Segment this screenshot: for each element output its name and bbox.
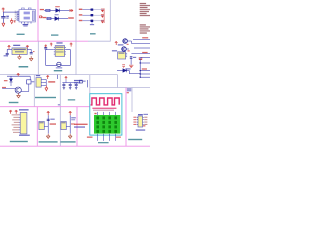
wire C2 down	[6, 55, 8, 57]
ground bars at x70.2	[69, 88, 72, 90]
block border: vertical magenta x=38 (power input / opto blocks)	[37, 0, 39, 41]
C3 plus mark	[33, 51, 35, 52]
ground under 7805	[18, 55, 22, 60]
wire LED row3 right	[93, 20, 104, 22]
diode label row2	[55, 14, 59, 15]
wire cap drop x70.2	[69, 83, 71, 85]
LED D5 row3	[91, 20, 94, 22]
vertical rail x140	[139, 57, 141, 77]
U? ref text (block G)	[36, 75, 40, 76]
wire to edge y63	[140, 62, 150, 64]
wire stub	[46, 49, 54, 51]
ground (block G)	[45, 85, 48, 90]
red output arrow row1	[70, 9, 73, 12]
ground power arrow (block A mid)	[10, 18, 13, 23]
value label C1	[6, 16, 9, 17]
pin tick left (block L)	[137, 121, 138, 123]
LED label red	[4, 80, 8, 81]
wire C1 to ground	[2, 18, 4, 23]
block border: vertical periwinkle x=76	[75, 0, 77, 75]
text below header (block I)	[19, 135, 30, 136]
capacitor (block J1)	[47, 119, 50, 120]
crimson text row2	[93, 110, 114, 111]
annotation text paragraph 2	[140, 24, 146, 25]
transistor Q1	[123, 39, 128, 44]
resistor red symbol row1	[101, 9, 104, 12]
transistor Q2	[122, 47, 127, 52]
LED D4 row2	[91, 14, 94, 16]
net label P1.x top	[142, 37, 148, 38]
node label text row2	[42, 17, 46, 18]
crystal Y1	[57, 62, 61, 66]
wire cap drop x63.9	[63, 83, 65, 85]
input symbol row2 (block B)	[40, 16, 43, 18]
text near Q2	[112, 50, 117, 51]
power arrow (mid-right)	[115, 42, 118, 45]
ground bars at x76.2	[75, 88, 78, 90]
wire to edge y74	[140, 73, 150, 75]
crystal value text	[56, 67, 62, 68]
wire LED3 cathode stub	[91, 22, 93, 23]
power arrow (block J1)	[47, 112, 50, 116]
pin tick right	[65, 53, 66, 55]
capacitor C1	[1, 17, 5, 18]
pin label red right (block L)	[144, 124, 147, 125]
pin tick right (block L)	[143, 121, 144, 123]
block border: vertical periwinkle x=132	[131, 88, 133, 113]
block border: vertical periwinkle x=110 (LED block right)	[109, 0, 111, 42]
relay pin name texts	[16, 12, 18, 20]
regulator U? 7805 body	[12, 48, 27, 55]
wire to edge y48	[134, 47, 150, 49]
ground (block J1)	[46, 134, 50, 139]
pin tick left	[54, 47, 55, 49]
wire cap rail	[62, 82, 78, 84]
block border: horizontal periwinkle y=74.5	[0, 74, 90, 76]
relay ref text K1	[23, 24, 29, 25]
block J2 title text	[60, 141, 75, 142]
LED common rail (red)	[103, 8, 105, 23]
ref text above IC (block L)	[138, 114, 143, 115]
pin tick (block G)	[41, 78, 43, 80]
wire to R (block F)	[29, 76, 31, 79]
resistor R? row1	[46, 9, 50, 11]
red label right of pins	[116, 137, 121, 138]
header pin labels (red)	[12, 114, 19, 115]
IC U? (clock chip) body	[55, 46, 64, 57]
pin label red left (block L)	[133, 119, 136, 120]
wire to edge y70.6	[140, 70, 150, 72]
wire VOUT	[27, 48, 31, 50]
wire VIN	[7, 48, 12, 50]
ref text above header (block I)	[19, 109, 29, 110]
red mark right of Q2	[128, 50, 130, 51]
pin tick left	[54, 53, 55, 55]
net label RESET red	[50, 123, 56, 124]
red mark bottom right of IC	[143, 125, 145, 126]
diode D? (mid-right)	[123, 69, 127, 73]
diode label row1	[55, 6, 60, 7]
diode D2 row2	[55, 17, 59, 21]
node label text row1 (block B)	[40, 9, 44, 10]
block D title: DC5V power	[19, 66, 29, 68]
text r2 (block J2)	[71, 119, 75, 120]
ground under C3	[29, 56, 33, 61]
caps block title text	[68, 99, 75, 100]
block E title text	[54, 70, 62, 71]
red tick near Q1	[127, 44, 129, 45]
block border: horizontal periwinkle y=41 under LED block	[88, 40, 110, 42]
IC text row3	[56, 51, 64, 52]
wire LED row1 left	[82, 9, 90, 11]
IC X1 (yellow, mid-right)	[118, 52, 126, 59]
power arrow 2 (block I)	[15, 110, 18, 114]
pin tick (block G)	[41, 84, 43, 86]
wire LCD vertical	[86, 80, 88, 87]
pin label red left (block L)	[133, 124, 136, 125]
relay bottom pins	[22, 22, 32, 24]
relay K1 top loops	[22, 8, 31, 10]
block border: vertical periwinkle x=60	[59, 75, 61, 147]
keypad matrix (green)	[94, 115, 120, 134]
IR LED D? (filled triangle down)	[9, 79, 12, 82]
red mark (block L)	[127, 92, 129, 93]
power arrow (caps block)	[65, 77, 68, 80]
wire base	[2, 87, 15, 89]
ground (block J2)	[68, 134, 72, 139]
power arrow on rail	[17, 74, 20, 77]
net label y68	[142, 68, 147, 69]
net label right row2	[68, 17, 74, 18]
pin label red right (block L)	[144, 119, 147, 120]
wire Q2 right	[126, 48, 129, 50]
crystal symbol small (caps block)	[80, 80, 83, 83]
switch S? (block J1) body	[39, 122, 44, 130]
annotation text paragraph 1	[140, 3, 146, 4]
input net label (block F)	[2, 87, 6, 88]
wire to edge y77	[140, 76, 150, 78]
text near Q1	[118, 44, 124, 45]
block border: vertical periwinkle x=34 row3	[33, 75, 35, 107]
relay left pins	[17, 11, 19, 20]
cap text (block J1)	[50, 119, 54, 120]
C2 value text	[4, 55, 8, 56]
diode D1 row1	[56, 9, 60, 13]
switch S? (block J2) body	[61, 122, 66, 130]
wire corner to rail	[129, 71, 140, 74]
pin tick X1 right	[126, 54, 128, 56]
pin tick right (block L)	[143, 116, 144, 118]
crystal text	[83, 81, 86, 82]
red socket symbol	[139, 57, 142, 60]
block border: horizontal magenta y=41 left	[0, 40, 88, 42]
wire vcc to cap rail	[65, 79, 67, 82]
wire vertical (block J1)	[47, 115, 49, 133]
net label y52	[142, 52, 147, 53]
relay pin numbers	[15, 11, 16, 21]
wire with diode	[117, 70, 129, 72]
wire to IR LED	[10, 76, 12, 78]
wire VCC to relay pins	[3, 11, 17, 13]
wire to edge y43	[131, 42, 150, 44]
wire LED row1 right	[93, 9, 104, 11]
LCD module box (cyan)	[90, 94, 122, 135]
text under LED column	[90, 24, 94, 25]
block border: horizontal periwinkle y=74.5 right segment	[90, 74, 118, 76]
pin label red right (block L)	[144, 117, 147, 118]
capacitor on left leg (block E)	[44, 48, 47, 49]
pin tick (block G)	[41, 81, 43, 83]
wire vertical join	[45, 79, 47, 85]
wire switch to rail (J2)	[66, 125, 70, 127]
wire row2 right	[59, 18, 68, 20]
switch text (J2)	[61, 122, 65, 123]
net label red (block J2)	[71, 123, 75, 124]
pin tick left	[54, 49, 55, 51]
relay coil bar lower	[24, 17, 30, 20]
capacitor at x63.9	[62, 84, 65, 85]
wire cap down	[130, 58, 132, 64]
power arrow (block G)	[46, 76, 49, 80]
capacitor C3 (polar)	[30, 53, 33, 54]
pin tick X1 right	[126, 52, 128, 54]
pin label red left (block L)	[133, 122, 136, 123]
block border: vertical periwinkle x=90 upper	[89, 75, 91, 94]
U? ref text (block E)	[56, 42, 62, 43]
block border: horizontal magenta y=146 bottom	[0, 145, 150, 147]
text right of IC	[143, 114, 148, 115]
text r1 (block J2)	[71, 117, 76, 118]
block F title text	[9, 102, 19, 103]
resistor R? (block F)	[27, 80, 31, 84]
wire to edge y57	[140, 56, 150, 58]
ground under transistor (block F)	[17, 93, 21, 98]
net text row2	[127, 90, 131, 91]
capacitor C2	[6, 53, 9, 54]
net label LED row2	[79, 14, 83, 15]
wire LED row2 left	[82, 14, 90, 16]
power arrow (block J2)	[69, 112, 72, 116]
net label DQ red	[48, 81, 55, 82]
wire pin1	[43, 78, 46, 80]
net labels navy (left of keypad)	[74, 126, 85, 127]
pin tick right	[65, 49, 66, 51]
7805 name text row	[15, 51, 24, 52]
wire to C3	[30, 49, 32, 52]
IC text row2	[56, 49, 64, 50]
wire vertical (block J2)	[69, 115, 71, 133]
relay contact bar	[32, 11, 34, 21]
LCD net label row1	[74, 80, 82, 81]
header pin ticks	[19, 115, 20, 132]
pin-1 red mark	[14, 20, 16, 22]
keypad bottom pins	[98, 134, 116, 141]
wire to edge y39	[133, 38, 150, 40]
power arrow (block E mid)	[50, 43, 53, 46]
LED D3 row1	[91, 8, 94, 10]
power arrow VIN (block D)	[8, 46, 11, 50]
block I title text	[10, 141, 28, 142]
net stub text	[58, 104, 60, 105]
wire LED row2 right	[93, 14, 104, 16]
power VCC arrow (block A)	[2, 8, 5, 12]
pin tick left (block L)	[137, 116, 138, 118]
wire Q1 corner	[130, 41, 132, 43]
resistor R? row2	[47, 18, 51, 20]
wire pin3	[43, 84, 46, 86]
block K title text	[98, 142, 109, 143]
block border: vertical magenta x=37 row4	[36, 107, 38, 147]
net label LED row1	[79, 9, 83, 10]
pin label red left (block L)	[133, 117, 136, 118]
ground power arrow (block A left)	[2, 23, 5, 26]
resistor red symbol row3	[101, 20, 104, 23]
wire to C2	[6, 49, 8, 53]
pin tick left (block L)	[137, 124, 138, 126]
power arrow (block E left)	[44, 45, 47, 48]
LCD net label row2	[74, 82, 80, 83]
power arrow 1 (block I)	[9, 110, 12, 114]
pin tick right (block L)	[143, 124, 144, 126]
wire row2 left	[47, 18, 55, 20]
cap value text	[133, 57, 136, 58]
wire Q1 to rail	[127, 40, 131, 42]
net text (block L top) row1	[127, 88, 131, 89]
block border: vertical periwinkle x=38 row2	[37, 41, 39, 74]
relay coil bar upper	[24, 12, 30, 15]
P3 net labels red (left of keypad)	[74, 124, 88, 125]
ground bars at x63.9	[63, 88, 66, 90]
transistor Q? (block F)	[15, 87, 21, 93]
resistor red symbol row2	[101, 15, 104, 18]
wire to edge y53.6	[131, 53, 150, 55]
pin tick left (block L)	[137, 119, 138, 121]
ground flat red (mid-right)	[129, 65, 133, 67]
7805 pin text row	[13, 49, 25, 50]
navy text near corner	[125, 68, 130, 69]
wire R down	[28, 84, 30, 91]
relay value text	[23, 26, 27, 27]
pin tick X1 right	[126, 56, 128, 58]
X1 text	[118, 53, 124, 54]
pin tick right	[65, 51, 66, 53]
capacitor at x70.2	[69, 84, 72, 85]
block A title text	[17, 34, 25, 35]
power arrow VOUT (block D)	[26, 46, 29, 50]
pin label red right (block L)	[144, 122, 147, 123]
IC U? (block L) body	[138, 116, 143, 127]
wire top rail (block F)	[7, 75, 30, 77]
text below IC (block L)	[136, 129, 145, 130]
LCD waveform (crimson)	[91, 98, 120, 105]
net label LED row3	[79, 20, 83, 21]
block border: vertical magenta x=126	[125, 88, 127, 147]
block J1 title text	[39, 141, 58, 142]
wire loop to crystal	[46, 49, 71, 65]
block border: horizontal magenta y=107	[0, 106, 90, 108]
block C title text LED	[90, 33, 96, 34]
capacitor (mid-right top)	[130, 57, 133, 58]
block border: vertical periwinkle x=117.5	[117, 75, 119, 88]
block B title text	[51, 34, 58, 35]
keypad key grid	[96, 116, 117, 132]
wire stub down from block E	[56, 75, 58, 79]
switch text	[39, 122, 43, 123]
red label left of pins	[87, 137, 93, 138]
sensor U? DS18B20 body	[36, 78, 41, 88]
value label 104	[6, 18, 8, 19]
wire row1 left	[44, 9, 55, 11]
wire pin2	[43, 81, 46, 83]
block G title text DS18B20	[35, 97, 56, 98]
block border: vertical magenta x=77	[76, 107, 78, 147]
power arrow (block E right)	[70, 43, 73, 47]
wire row1 right	[60, 9, 70, 11]
wire to capacitor C1	[2, 12, 4, 16]
red plus mark keypad	[94, 113, 96, 114]
wire LED down	[10, 82, 12, 86]
block L title text	[128, 139, 142, 140]
IC text row1	[56, 47, 64, 48]
junction dots on rail	[140, 62, 141, 78]
pin tick left	[54, 51, 55, 53]
header J? (block I) body	[20, 112, 27, 133]
wire switch to rail	[44, 125, 48, 127]
U? 7805 ref text	[13, 45, 20, 46]
crimson text under waveform	[92, 108, 116, 109]
wire cap drop x76.2	[75, 83, 77, 85]
block border: horizontal periwinkle y=87.5	[90, 87, 150, 89]
keypad top pins	[98, 112, 116, 115]
wire LED row3 left	[82, 20, 90, 22]
capacitor at x76.2	[75, 84, 78, 85]
wire collector	[21, 91, 29, 93]
pin tick right (block L)	[143, 119, 144, 121]
relay K1 body	[19, 10, 35, 22]
red symbol below X1	[122, 65, 125, 67]
R value text	[31, 81, 34, 82]
pin tick right	[65, 47, 66, 49]
